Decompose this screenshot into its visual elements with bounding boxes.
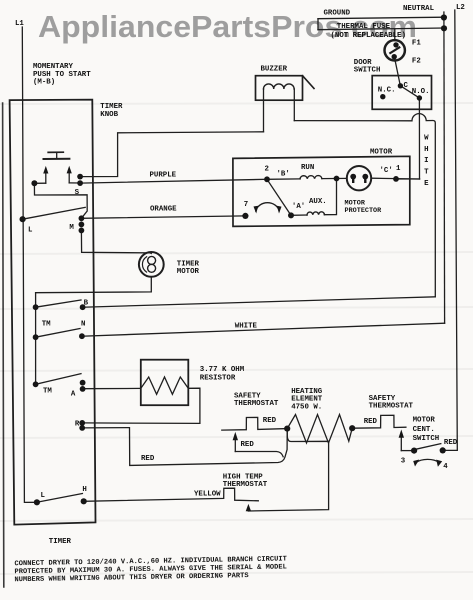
svg-text:RED: RED [444,439,458,447]
svg-text:RUN: RUN [301,164,314,172]
svg-text:CENT.: CENT. [413,426,435,434]
svg-text:PURPLE: PURPLE [150,172,177,180]
svg-text:MOTOR: MOTOR [413,417,436,425]
svg-text:4750 W.: 4750 W. [291,403,322,411]
svg-text:RED: RED [364,418,378,426]
svg-text:H: H [424,146,428,154]
svg-text:THERMOSTAT: THERMOSTAT [369,403,414,411]
svg-text:AUX.: AUX. [309,198,327,206]
svg-text:RESISTOR: RESISTOR [200,374,236,382]
svg-text:H: H [82,486,86,494]
svg-text:(NOT REPLACEABLE): (NOT REPLACEABLE) [331,32,406,40]
svg-text:F1: F1 [412,40,421,48]
svg-text:'C': 'C' [380,167,393,175]
svg-text:B: B [84,300,89,308]
svg-text:RED: RED [241,441,255,449]
svg-text:N.O.: N.O. [412,88,430,96]
svg-text:MOTOR: MOTOR [345,199,366,207]
svg-text:THERMOSTAT: THERMOSTAT [223,481,268,489]
svg-text:L: L [28,227,33,235]
svg-text:2: 2 [265,166,269,174]
svg-text:T: T [424,169,429,177]
svg-text:PROTECTOR: PROTECTOR [345,207,383,215]
svg-text:THERMOSTAT: THERMOSTAT [234,400,279,408]
svg-text:R: R [75,420,80,428]
svg-text:ORANGE: ORANGE [150,206,177,214]
svg-text:MOMENTARY: MOMENTARY [33,63,73,71]
svg-text:WHITE: WHITE [235,323,258,331]
svg-text:1: 1 [396,165,401,173]
svg-text:N.C.: N.C. [378,87,396,95]
svg-text:L2: L2 [456,4,465,12]
svg-text:MOTOR: MOTOR [370,149,393,157]
svg-text:I: I [424,157,428,165]
svg-text:SWITCH: SWITCH [354,67,381,75]
svg-text:RED: RED [263,417,277,425]
svg-text:E: E [424,180,429,188]
svg-text:C: C [404,82,409,90]
svg-text:4: 4 [443,463,448,471]
svg-text:3: 3 [401,458,406,466]
svg-text:(M-B): (M-B) [33,79,55,87]
svg-text:ELEMENT: ELEMENT [291,396,323,404]
svg-text:NEUTRAL: NEUTRAL [403,5,435,13]
svg-text:A: A [71,390,76,398]
svg-text:YELLOW: YELLOW [194,491,221,499]
svg-text:7: 7 [244,201,248,209]
svg-text:TM: TM [42,320,51,328]
svg-text:TIMER: TIMER [49,538,72,546]
svg-text:N: N [81,320,85,328]
svg-text:GROUND: GROUND [324,10,351,18]
svg-text:F2: F2 [412,58,421,66]
svg-text:KNOB: KNOB [100,111,118,119]
svg-text:PUSH TO START: PUSH TO START [33,71,91,79]
svg-text:'B': 'B' [277,171,290,179]
svg-text:BUZZER: BUZZER [261,66,288,74]
svg-text:M: M [69,224,74,232]
svg-text:MOTOR: MOTOR [177,268,200,276]
svg-text:HEATING: HEATING [291,388,323,396]
svg-text:W: W [424,134,429,142]
svg-text:L1: L1 [15,20,24,28]
svg-text:L: L [41,492,46,500]
svg-text:TM: TM [43,388,52,396]
svg-text:'A': 'A' [292,203,305,211]
svg-text:THERMAL FUSE: THERMAL FUSE [337,23,391,31]
svg-text:S: S [75,189,80,197]
svg-text:RED: RED [141,455,155,463]
